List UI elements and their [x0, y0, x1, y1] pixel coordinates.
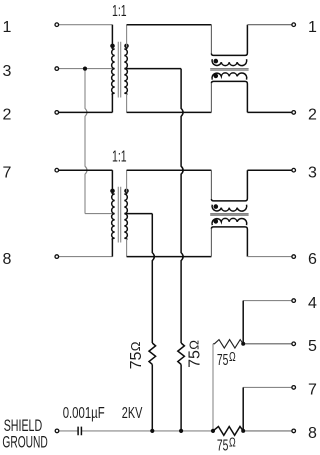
resistor R3 body — [213, 340, 243, 349]
wire T2 secondary left leg — [210, 83, 212, 112]
transformer T4 primary top bar — [211, 170, 247, 201]
svg-text:Ω: Ω — [128, 341, 143, 351]
transformer T1 core — [118, 42, 120, 98]
transformer T2 secondary bottom bar — [211, 81, 247, 112]
wire pin 3 left — [57, 68, 114, 70]
transformer T1 secondary top leg — [126, 25, 128, 48]
svg-text:SHIELD: SHIELD — [4, 417, 43, 435]
terminal pin 1 left — [55, 23, 59, 27]
transformer T3 primary winding — [112, 193, 115, 240]
wire pin 4 corner vertical — [242, 301, 244, 344]
wire pin 4 right — [243, 300, 293, 302]
svg-text:75: 75 — [217, 352, 229, 369]
svg-text:GROUND: GROUND — [2, 433, 47, 451]
wire pin 1 left — [57, 24, 112, 26]
terminal pin 8 left — [55, 255, 59, 259]
transformer T3 secondary winding — [124, 193, 127, 240]
wire R2 bottom — [180, 364, 182, 431]
svg-text:2KV: 2KV — [122, 405, 143, 422]
svg-text:4: 4 — [308, 295, 317, 312]
wire T1 secondary center tap — [125, 68, 181, 70]
junction rail-R2 — [179, 429, 183, 433]
wire shield stub — [59, 430, 78, 432]
wire T4 primary left leg — [210, 170, 212, 199]
wire pin 7 corner vertical — [242, 387, 244, 431]
transformer T4 secondary winding scallops — [212, 218, 247, 225]
wire x152 vertical — [152, 214, 154, 343]
transformer T2 primary winding scallops — [212, 59, 247, 65]
resistor R1 body — [149, 343, 156, 364]
transformer T1 polarity dot primary — [110, 44, 115, 49]
wire pin 7 left — [57, 169, 112, 171]
wire pin 5 right — [243, 343, 293, 345]
junction rail-R1 — [150, 429, 154, 433]
transformer T3 polarity dot primary — [110, 189, 115, 194]
capacitor C1 plates — [78, 427, 81, 436]
transformer T3 primary bottom leg — [111, 239, 113, 257]
wire pin 7 right — [243, 386, 293, 388]
terminal pin 7 left — [55, 168, 59, 172]
junction R3 output — [241, 342, 245, 346]
terminal pin 2 right — [292, 111, 296, 115]
transformer T1 primary top leg — [111, 25, 113, 48]
transformer T2 secondary winding scallops — [212, 73, 247, 80]
transformer T1 primary winding — [112, 48, 115, 95]
terminal pin 7 right — [292, 386, 296, 390]
wire pin 8 left — [57, 256, 112, 258]
svg-text:8: 8 — [3, 251, 12, 268]
wire center-tap bus x85 — [85, 69, 87, 214]
terminal pin 3 left — [55, 67, 59, 71]
svg-text:75: 75 — [217, 437, 229, 454]
svg-text:Ω: Ω — [229, 349, 236, 364]
svg-text:1: 1 — [3, 19, 12, 36]
transformer T3 polarity dot secondary — [124, 189, 129, 194]
svg-text:8: 8 — [308, 425, 317, 442]
terminal pin 2 left — [55, 111, 59, 115]
svg-text:5: 5 — [308, 338, 317, 355]
wire T4 secondary left leg — [210, 229, 212, 257]
svg-text:1:1: 1:1 — [112, 3, 127, 20]
wire T1-T2 bottom link — [127, 111, 212, 113]
transformer T3 core — [118, 187, 120, 243]
svg-text:2: 2 — [308, 107, 317, 124]
transformer T4 primary winding scallops — [212, 205, 247, 211]
transformer T4 polarity dot secondary — [214, 219, 219, 224]
svg-text:7: 7 — [308, 382, 317, 399]
resistor R4 body — [213, 427, 243, 436]
svg-text:3: 3 — [308, 165, 317, 182]
transformer T1 polarity dot secondary — [124, 44, 129, 49]
terminal pin 1 right — [292, 23, 296, 27]
transformer T3 primary top leg — [111, 170, 113, 193]
wire T3-T4 top link — [127, 169, 212, 171]
transformer T1 primary bottom leg — [111, 93, 113, 112]
svg-text:6: 6 — [308, 251, 317, 268]
wire T3-T4 bottom link — [127, 256, 212, 258]
wire T2 primary left leg — [210, 25, 212, 54]
transformer T1 secondary winding — [124, 48, 127, 95]
junction rail-R3drop — [211, 429, 215, 433]
resistor R2 body — [178, 343, 185, 364]
wire ground rail — [82, 430, 213, 432]
transformer T3 secondary bottom leg — [126, 239, 128, 257]
wire T3 secondary center tap — [125, 213, 153, 215]
transformer T1 secondary bottom leg — [126, 94, 128, 113]
wire pin 6 right — [247, 256, 293, 258]
svg-text:1: 1 — [308, 19, 317, 36]
terminal pin 6 right — [292, 255, 296, 259]
wire T3 left center tap — [85, 213, 114, 215]
transformer T2 polarity dot secondary — [214, 74, 219, 79]
transformer T4 polarity dot primary — [214, 204, 219, 209]
svg-text:75: 75 — [128, 352, 145, 370]
transformer T2 polarity dot primary — [214, 59, 219, 64]
svg-text:7: 7 — [3, 165, 12, 182]
transformer T4 secondary bottom bar — [211, 227, 247, 257]
svg-text:Ω: Ω — [229, 434, 236, 449]
terminal shield ground — [55, 429, 59, 433]
wire x181 vertical — [181, 69, 183, 343]
transformer T4 core — [210, 214, 248, 216]
wire pin 2 right — [247, 111, 293, 113]
wire R1 bottom — [151, 364, 153, 431]
svg-text:2: 2 — [3, 107, 12, 124]
wire pin 3 right — [247, 169, 293, 171]
terminal pin 3 right — [292, 168, 296, 172]
svg-text:3: 3 — [3, 63, 12, 80]
wire R3 left drop — [212, 344, 214, 431]
wire pin 1 right — [247, 24, 293, 26]
wire pin 2 left — [57, 111, 112, 113]
junction R4 output — [241, 429, 245, 433]
junction pin3-bus — [83, 67, 87, 71]
terminal pin 5 right — [292, 342, 296, 346]
terminal pin 8 right — [292, 429, 296, 433]
svg-text:0.001µF: 0.001µF — [63, 405, 105, 422]
terminal pin 4 right — [292, 299, 296, 303]
wire pin 8 right — [243, 430, 293, 432]
transformer T3 secondary top leg — [126, 170, 128, 192]
svg-text:Ω: Ω — [187, 340, 202, 350]
transformer T2 primary top bar — [211, 25, 247, 56]
svg-text:75: 75 — [186, 350, 203, 368]
svg-text:1:1: 1:1 — [112, 149, 127, 166]
wire T1-T2 top link — [127, 24, 212, 26]
transformer T2 core — [210, 69, 248, 71]
